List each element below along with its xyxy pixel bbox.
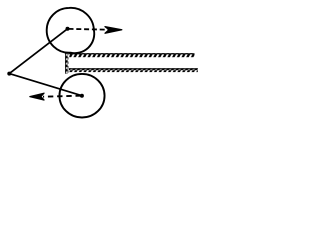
strip bottom surface band (hatched) <box>69 68 198 72</box>
top dashed arrow (rightward) <box>69 27 122 34</box>
strip left edge (hatched) <box>65 52 68 73</box>
bottom dashed arrow (leftward) <box>30 93 81 100</box>
node bottom roller center dot <box>80 94 84 98</box>
node top roller center dot <box>66 27 70 31</box>
top roller circle <box>47 8 95 53</box>
strip top surface band (hatched) <box>69 53 194 57</box>
wire vertex to bottom roller center <box>9 74 82 96</box>
wire vertex to top roller center <box>9 29 67 74</box>
node vertex dot <box>7 72 11 76</box>
bottom roller circle <box>59 74 104 118</box>
